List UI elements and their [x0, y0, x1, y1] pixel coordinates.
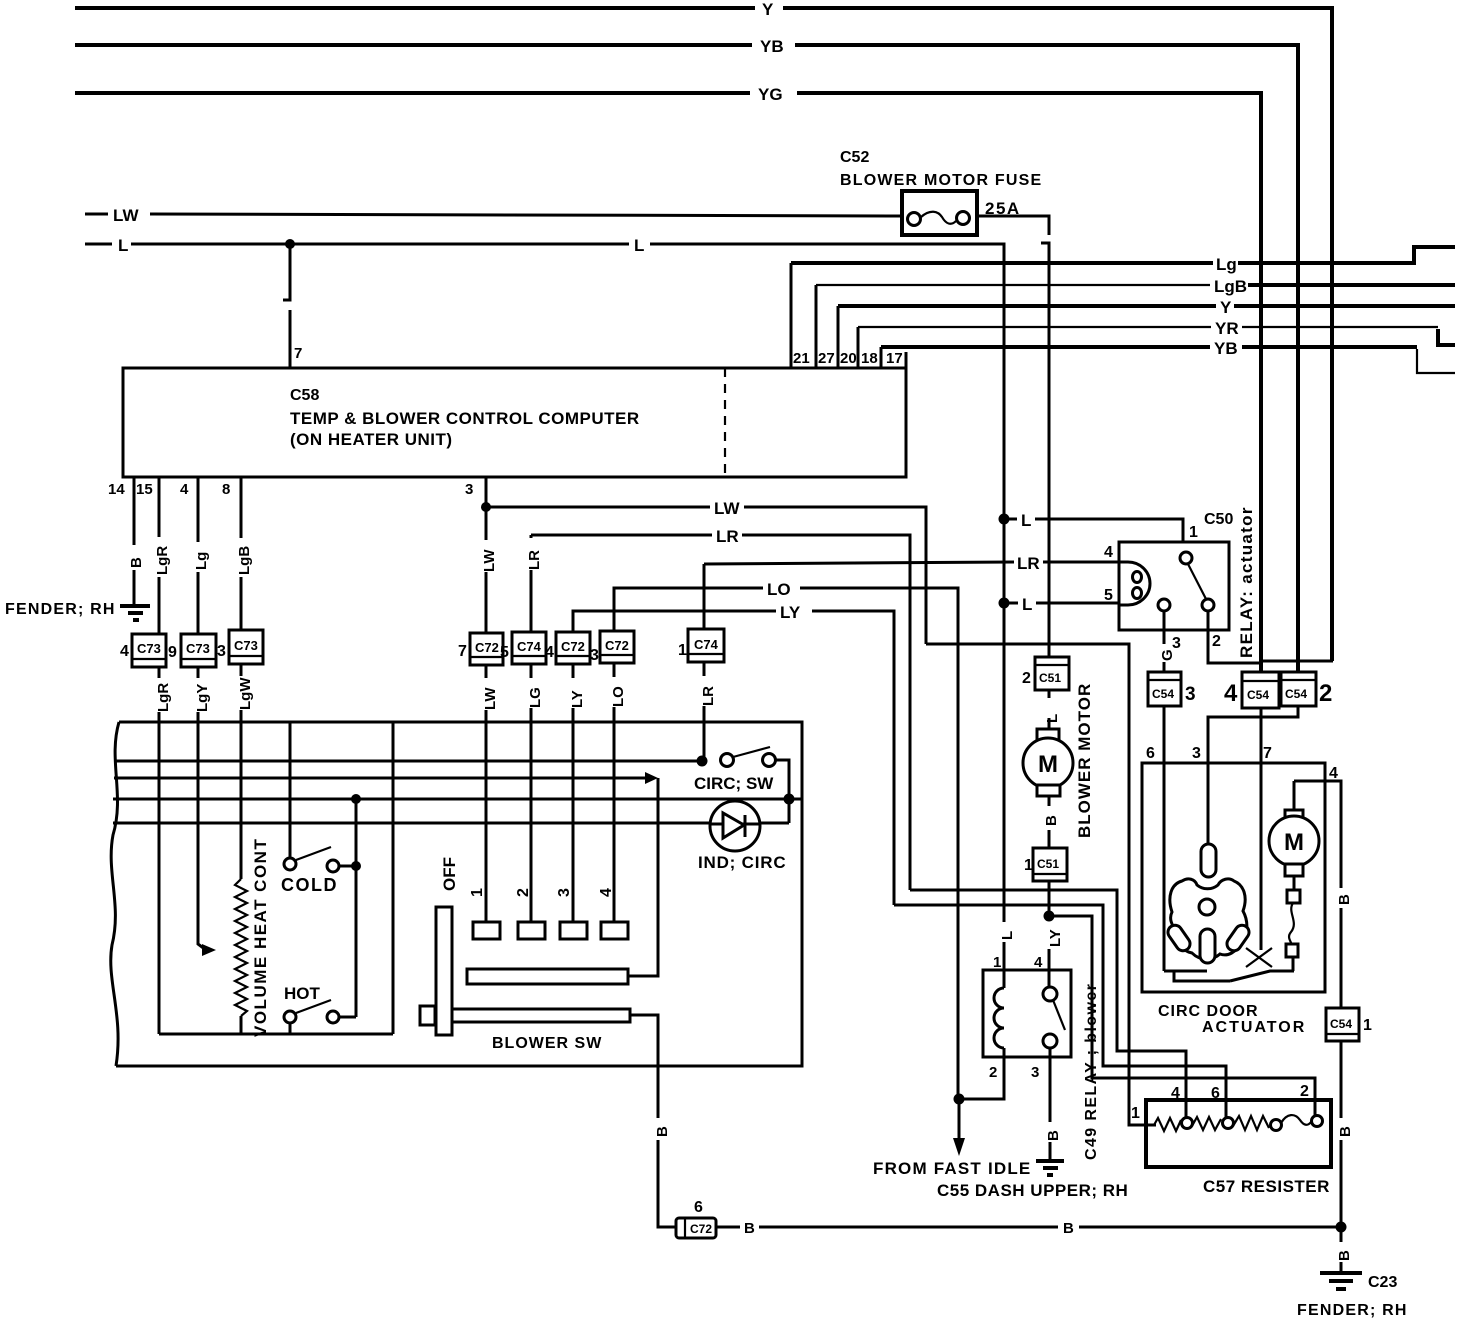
svg-text:C74: C74: [694, 637, 719, 652]
wire C51 pin1 to junction: [1048, 881, 1051, 920]
svg-text:CIRC; SW: CIRC; SW: [694, 774, 774, 793]
svg-text:Y: Y: [762, 0, 774, 19]
svg-text:20: 20: [840, 350, 857, 367]
wire LY below connector: [569, 664, 586, 722]
blower speed contact 1: [473, 922, 500, 939]
svg-text:L: L: [634, 236, 644, 255]
svg-text:6: 6: [1211, 1085, 1220, 1102]
rotated label L on L wire: [999, 931, 1016, 970]
svg-text:4: 4: [1171, 1085, 1180, 1102]
svg-text:18: 18: [861, 350, 878, 367]
fuse C52 BLOWER MOTOR FUSE: [840, 149, 1042, 235]
svg-text:6: 6: [694, 1199, 703, 1216]
C58 computer box: [123, 368, 906, 477]
svg-text:B: B: [1045, 1130, 1062, 1141]
svg-text:C54: C54: [1330, 1017, 1352, 1031]
svg-text:B: B: [1063, 1220, 1074, 1237]
actuator linkage cross: [1246, 948, 1272, 967]
svg-text:FENDER; RH: FENDER; RH: [5, 601, 116, 618]
svg-text:LgW: LgW: [237, 677, 254, 710]
resistor VOLUME HEAT CONT: [235, 722, 270, 1037]
svg-text:4: 4: [1224, 680, 1238, 707]
svg-text:4: 4: [1329, 765, 1338, 782]
svg-text:21: 21: [793, 350, 810, 367]
wire LW below connector: [482, 665, 499, 722]
svg-text:LR: LR: [700, 686, 717, 706]
wire C50 pin3 to C54: [1159, 611, 1181, 672]
svg-text:3: 3: [556, 888, 573, 897]
actuator pin labels: [1146, 745, 1338, 782]
wire LgR below connector: [155, 667, 172, 722]
wire Lg right feed: [791, 247, 1455, 368]
ground FENDER RH left: [5, 601, 150, 620]
svg-text:LY: LY: [569, 690, 586, 708]
node wire to C54 pin4 and pin2: [1261, 660, 1333, 663]
wire Y top feed: [75, 0, 1332, 661]
svg-text:C72: C72: [475, 640, 499, 655]
connector C72 pin6: [676, 1199, 716, 1238]
connector C73 pin4: [120, 634, 166, 667]
wire L to C50 pin 1: [1004, 511, 1198, 541]
connector C72 pin7: [458, 633, 503, 665]
svg-text:G: G: [1159, 649, 1176, 661]
svg-text:LR: LR: [1017, 554, 1040, 573]
wire LgR inside box: [158, 722, 161, 1034]
svg-text:OFF: OFF: [440, 857, 459, 891]
wire C54 pin4 output to actuator pin7: [1260, 708, 1263, 946]
svg-text:C54: C54: [1247, 688, 1269, 702]
wire LR below connector: [700, 662, 717, 722]
svg-text:3: 3: [590, 647, 599, 664]
svg-text:1: 1: [1189, 524, 1198, 541]
junction dot bus3 to switch column: [351, 794, 361, 804]
junction dot fast idle: [954, 1094, 965, 1105]
svg-text:LW: LW: [482, 687, 499, 710]
actuator pill center: [1200, 929, 1215, 963]
switch COLD: [281, 847, 356, 895]
svg-text:2: 2: [989, 1064, 997, 1081]
svg-text:M: M: [1284, 829, 1304, 856]
svg-text:LgB: LgB: [1214, 277, 1247, 296]
relay C50 contact: [1158, 552, 1214, 611]
blower switch bar left nub: [420, 1006, 435, 1025]
svg-text:2: 2: [515, 888, 532, 897]
ground C23 FENDER RH: [1297, 1273, 1408, 1319]
wire LW to fuse: [85, 206, 901, 225]
wire pin14 B to ground: [128, 497, 145, 604]
svg-text:LgY: LgY: [194, 684, 211, 712]
svg-text:C72: C72: [605, 638, 629, 653]
junction dot L to pin7: [285, 239, 295, 249]
svg-text:LG: LG: [527, 687, 544, 708]
switch CIRC SW: [694, 747, 789, 823]
svg-text:ACTUATOR: ACTUATOR: [1202, 1019, 1306, 1036]
svg-text:1: 1: [469, 888, 486, 897]
svg-text:C73: C73: [186, 641, 210, 656]
wire YR right feed: [858, 319, 1455, 368]
svg-text:B: B: [1043, 815, 1060, 826]
svg-text:2: 2: [1212, 633, 1221, 650]
wire pin15 LgR: [154, 497, 171, 634]
wire LG below connector: [527, 664, 544, 722]
svg-text:LR: LR: [716, 527, 739, 546]
connector C73 pin3: [217, 630, 263, 664]
resistor riser stubs inside box: [1185, 1100, 1188, 1118]
svg-text:3: 3: [1185, 684, 1196, 705]
actuator gear center circle: [1199, 899, 1215, 915]
connector C72 pin3: [590, 631, 634, 664]
connector C54 pin4: [1224, 672, 1279, 708]
wire LO inside box to contact 4: [613, 722, 616, 922]
svg-text:1: 1: [993, 954, 1001, 971]
connector C74 pin1: [678, 629, 724, 662]
wire C50 pin2 to node: [1208, 611, 1261, 663]
svg-text:C55 DASH UPPER; RH: C55 DASH UPPER; RH: [937, 1181, 1128, 1200]
wire LW horizontal run: [486, 499, 926, 644]
wire fan LW to C57 pin1: [926, 644, 1154, 1125]
bus wire 4 indicator line: [113, 822, 789, 825]
wire bottom link LgR to temp switch: [159, 1033, 393, 1036]
svg-text:LgB: LgB: [236, 546, 253, 575]
relay C49 coil: [994, 970, 1004, 1057]
svg-text:B: B: [654, 1126, 671, 1137]
svg-text:27: 27: [818, 350, 835, 367]
connector C72 pin4: [545, 632, 590, 664]
wire wiper bar to bus2 arrow: [628, 778, 658, 976]
connector C51 pin2: [1022, 657, 1069, 690]
svg-text:14: 14: [108, 481, 125, 498]
ground C49: [1036, 1161, 1064, 1175]
blower speed contact 4: [601, 922, 628, 939]
heater control switch box outline with torn left edge: [111, 722, 802, 1066]
wire fan LR to C57 pin4: [910, 890, 1186, 1117]
connector C74 pin5: [500, 632, 546, 664]
svg-text:4: 4: [1034, 954, 1043, 971]
svg-text:LgR: LgR: [154, 546, 171, 575]
svg-text:LW: LW: [113, 206, 139, 225]
svg-text:LO: LO: [610, 686, 627, 707]
svg-text:Lg: Lg: [1216, 255, 1237, 274]
svg-text:FENDER; RH: FENDER; RH: [1297, 1302, 1408, 1319]
actuator pill left: [1165, 923, 1193, 954]
svg-text:2: 2: [1300, 1083, 1309, 1100]
svg-text:LW: LW: [714, 499, 740, 518]
svg-text:B: B: [744, 1220, 755, 1237]
actuator pill right: [1224, 923, 1252, 954]
svg-text:C72: C72: [690, 1222, 712, 1236]
wire switch column: [355, 799, 358, 1017]
actuator plunger pill pin3: [1201, 844, 1216, 877]
bus wire 1 CIRC SW line: [115, 760, 697, 763]
svg-text:C74: C74: [517, 639, 542, 654]
wire LR to relay pin 4: [704, 554, 1119, 629]
svg-text:Y: Y: [1220, 298, 1232, 317]
actuator motor flex link: [1286, 876, 1300, 971]
svg-text:YR: YR: [1215, 319, 1239, 338]
blower motor M: [1023, 683, 1094, 838]
svg-text:1: 1: [1363, 1017, 1372, 1034]
svg-text:9: 9: [168, 644, 177, 661]
wire drop to C58 pin 7 with connector hook: [283, 244, 302, 368]
arrow FROM FAST IDLE: [873, 1099, 1128, 1200]
wire C54 pin2 output to actuator pin3: [1208, 706, 1298, 844]
junction dot COLD contact: [351, 861, 361, 871]
label CIRC DOOR ACTUATOR: [1158, 1003, 1306, 1036]
svg-text:YB: YB: [760, 37, 784, 56]
C58 top pin ticks and numbers 21 27 20 18 17: [791, 348, 906, 368]
wire temp switch right riser: [392, 722, 395, 1034]
svg-text:C51: C51: [1037, 857, 1059, 871]
resistor C57 pin labels: [1131, 1083, 1309, 1122]
wire main bar to C72 pin6: [630, 1015, 658, 1118]
wire C49 pin2 to junction: [959, 1057, 1004, 1099]
svg-text:4: 4: [545, 644, 554, 661]
svg-text:15: 15: [136, 481, 153, 498]
wire actuator pin3 inner: [1207, 763, 1210, 848]
svg-text:RELAY: actuator: RELAY: actuator: [1237, 506, 1256, 658]
svg-text:LY: LY: [780, 603, 801, 622]
svg-text:1: 1: [1024, 857, 1033, 874]
svg-text:2: 2: [1319, 680, 1332, 707]
wire B from blower switch to C72 pin6: [654, 1126, 676, 1227]
connector C54 pin3: [1148, 672, 1196, 706]
wire LG inside box to contact 2: [530, 722, 533, 922]
switch HOT: [284, 984, 356, 1034]
wire actuator pin7 inner: [1260, 763, 1263, 950]
svg-text:B: B: [1337, 1126, 1354, 1137]
svg-text:5: 5: [500, 644, 509, 661]
svg-text:4: 4: [598, 888, 615, 897]
actuator inner shelf wires: [1164, 970, 1207, 973]
svg-text:3: 3: [1031, 1064, 1039, 1081]
svg-text:BLOWER MOTOR: BLOWER MOTOR: [1075, 683, 1094, 838]
svg-text:7: 7: [458, 643, 467, 660]
svg-text:TEMP & BLOWER CONTROL COMPUTER: TEMP & BLOWER CONTROL COMPUTER: [290, 409, 640, 428]
svg-text:B: B: [128, 557, 145, 568]
wire LgY inside box with wiper arrow: [198, 722, 216, 956]
wire B long run to right ground: [716, 1220, 1341, 1237]
svg-text:3: 3: [1192, 745, 1201, 762]
svg-text:L: L: [1022, 595, 1032, 614]
svg-text:C50: C50: [1204, 511, 1233, 528]
svg-text:3: 3: [217, 643, 226, 660]
svg-text:L: L: [118, 236, 128, 255]
junction dot CIRC SW bus3: [784, 794, 795, 805]
wire B below motor: [1043, 796, 1060, 848]
OFF lever: [436, 857, 459, 1035]
svg-text:6: 6: [1146, 745, 1155, 762]
svg-text:C52: C52: [840, 149, 869, 166]
actuator box: [1142, 763, 1325, 992]
svg-text:L: L: [1021, 511, 1031, 530]
svg-text:C57 RESISTER: C57 RESISTER: [1203, 1177, 1330, 1196]
relay C50 box: [1104, 506, 1256, 658]
blower chain label L above C51: [1044, 714, 1061, 723]
wire C49 pin4 inner: [1048, 970, 1051, 988]
wire LR riser from C74 pin5: [522, 535, 543, 632]
svg-text:LW: LW: [481, 549, 498, 572]
connector C73 pin9: [168, 634, 216, 667]
svg-text:COLD: COLD: [281, 875, 338, 895]
wire pin8 LgB: [236, 497, 253, 630]
wire YG top feed: [75, 85, 1261, 672]
svg-text:C73: C73: [137, 641, 161, 656]
svg-text:4: 4: [1104, 544, 1113, 561]
svg-text:3: 3: [465, 481, 473, 498]
junction dot L to C50 pin5: [999, 598, 1010, 609]
wire actuator pin4 B: [1294, 781, 1353, 1008]
bus wire 2 blower feed line: [114, 777, 646, 780]
bus wire 3: [113, 798, 802, 801]
svg-text:1: 1: [1131, 1105, 1140, 1122]
wire fan LY to C57 pin6: [894, 905, 1226, 1117]
svg-text:Lg: Lg: [193, 552, 210, 570]
svg-text:B: B: [1336, 894, 1353, 905]
relay C49 contact: [1043, 987, 1065, 1048]
svg-text:B: B: [1336, 1250, 1353, 1261]
blower speed contact 2: [518, 922, 545, 939]
svg-text:7: 7: [1263, 745, 1272, 762]
svg-text:C73: C73: [234, 638, 258, 653]
svg-text:L: L: [1044, 714, 1061, 723]
svg-text:IND; CIRC: IND; CIRC: [698, 853, 786, 872]
svg-text:4: 4: [120, 643, 129, 660]
svg-text:L: L: [999, 931, 1016, 940]
wire C54 pin1 to B junction: [1337, 1041, 1354, 1227]
svg-text:HOT: HOT: [284, 984, 321, 1003]
svg-text:M: M: [1038, 751, 1058, 778]
junction dot L to C50 pin1: [999, 514, 1010, 525]
wire pin3 LW riser: [481, 497, 498, 633]
wire fuse output with connector hook: [977, 216, 1049, 657]
svg-text:C72: C72: [561, 639, 585, 654]
svg-text:YG: YG: [758, 85, 783, 104]
svg-text:7: 7: [294, 345, 302, 362]
svg-text:1: 1: [678, 642, 687, 659]
wire L to C50 pin 5: [1004, 595, 1119, 614]
svg-text:C51: C51: [1039, 671, 1061, 685]
connector C54 pin1: [1326, 1008, 1372, 1041]
svg-text:5: 5: [1104, 587, 1113, 604]
svg-text:LY: LY: [1047, 929, 1064, 947]
svg-text:C54: C54: [1152, 687, 1174, 701]
connector C51 pin1: [1024, 848, 1067, 881]
wire LW inside box to contact 1: [485, 722, 488, 922]
wire YB right feed: [881, 339, 1455, 373]
actuator motor M: [1269, 781, 1319, 876]
actuator gear blob: [1170, 879, 1247, 959]
svg-text:YB: YB: [1214, 339, 1238, 358]
wire L main: [85, 236, 1004, 922]
relay C50 coil: [1119, 562, 1150, 605]
svg-text:(ON HEATER UNIT): (ON HEATER UNIT): [290, 430, 453, 449]
blower switch wiper bar upper: [467, 969, 628, 984]
svg-text:CIRC DOOR: CIRC DOOR: [1158, 1003, 1259, 1020]
wire C49 pin3 to ground: [1045, 1048, 1062, 1160]
relay C49 box: [983, 970, 1071, 1057]
resistor C57 box: [1146, 1100, 1331, 1167]
resistor C57 element: [1154, 1115, 1323, 1131]
C58 bottom pin ticks and numbers 14 15 4 8 3: [108, 477, 486, 498]
wire LgY below connector: [194, 667, 211, 722]
blower switch main bar: [435, 1009, 630, 1022]
wire LY to C49 pin4: [1047, 929, 1064, 987]
junction dot LR bus1: [697, 756, 708, 767]
svg-text:C58: C58: [290, 387, 319, 404]
indicator lamp IND CIRC diode: [698, 801, 786, 872]
relay C49 pin labels: [989, 954, 1100, 1160]
arrowhead bus2: [645, 772, 658, 784]
svg-text:8: 8: [222, 481, 230, 498]
wire LO run from C72 pin3: [614, 580, 958, 1099]
wire LY inside box to contact 3: [572, 722, 575, 922]
wire Y right feed: [838, 298, 1455, 368]
wire fan motor node to C57 pin2: [1049, 916, 1315, 1116]
wire LY run from C72 pin4: [573, 603, 894, 905]
svg-text:LO: LO: [767, 580, 791, 599]
svg-text:FROM FAST IDLE: FROM FAST IDLE: [873, 1159, 1031, 1178]
svg-text:BLOWER MOTOR FUSE: BLOWER MOTOR FUSE: [840, 172, 1042, 189]
blower speed contact 3: [560, 922, 587, 939]
svg-text:LR: LR: [526, 550, 543, 570]
svg-text:C49 RELAY ; blower: C49 RELAY ; blower: [1083, 983, 1100, 1160]
wire YB top feed: [75, 37, 1298, 672]
junction dot B ground node: [1336, 1222, 1347, 1233]
wire LgB right feed: [816, 277, 1455, 368]
wire COLD switch feed from box top: [289, 722, 292, 858]
svg-text:17: 17: [886, 350, 903, 367]
svg-text:C54: C54: [1285, 687, 1307, 701]
wire actuator pin6 inner (over blob): [1163, 763, 1166, 971]
wire LR horizontal run: [531, 527, 910, 890]
wire LgW below connector: [237, 664, 254, 722]
wire LO below connector: [610, 663, 627, 722]
wire to ground C23: [1336, 1227, 1353, 1271]
svg-text:BLOWER SW: BLOWER SW: [492, 1035, 602, 1052]
svg-text:LgR: LgR: [155, 683, 172, 712]
svg-text:2: 2: [1022, 670, 1031, 687]
svg-text:C23: C23: [1368, 1274, 1397, 1291]
wire C54 pin3 output to actuator pin6: [1163, 706, 1166, 970]
svg-text:VOLUME HEAT CONT: VOLUME HEAT CONT: [251, 838, 270, 1037]
wire LR inside box to bus1: [703, 722, 706, 761]
junction dot LY node: [1044, 911, 1055, 922]
wire pin4 Lg: [193, 497, 210, 634]
connector C54 pin2: [1281, 672, 1332, 707]
svg-text:4: 4: [180, 481, 189, 498]
